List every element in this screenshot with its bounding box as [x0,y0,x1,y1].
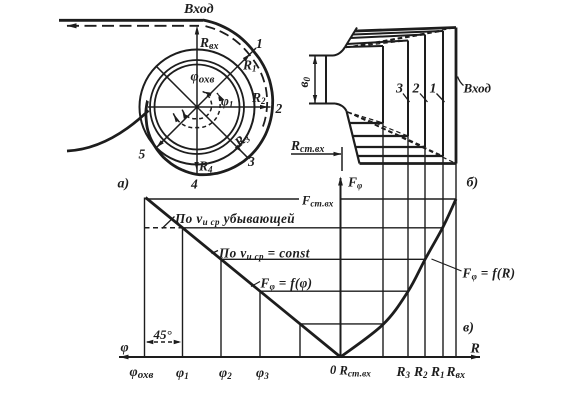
svg-text:По vи ср убывающей: По vи ср убывающей [174,211,295,227]
svg-text:Вход: Вход [183,2,214,17]
svg-text:2: 2 [412,82,420,97]
svg-text:1: 1 [256,36,263,51]
svg-text:φ: φ [121,341,129,356]
svg-text:Fφ = f(R): Fφ = f(R) [462,266,516,282]
svg-text:3: 3 [395,82,403,97]
svg-text:5: 5 [139,147,146,162]
svg-text:4: 4 [190,177,198,192]
svg-text:2: 2 [275,101,283,116]
svg-text:3: 3 [247,154,255,169]
svg-text:45°: 45° [153,327,173,342]
svg-text:1: 1 [430,82,437,97]
svg-text:Fφ = f(φ): Fφ = f(φ) [260,276,313,292]
svg-text:б): б) [467,176,479,191]
svg-text:R: R [470,342,480,357]
svg-text:а): а) [118,177,130,192]
svg-text:По vи ср = const: По vи ср = const [218,246,310,262]
svg-text:Вход: Вход [463,81,492,96]
svg-text:в): в) [463,321,474,336]
svg-text:0: 0 [330,363,337,377]
